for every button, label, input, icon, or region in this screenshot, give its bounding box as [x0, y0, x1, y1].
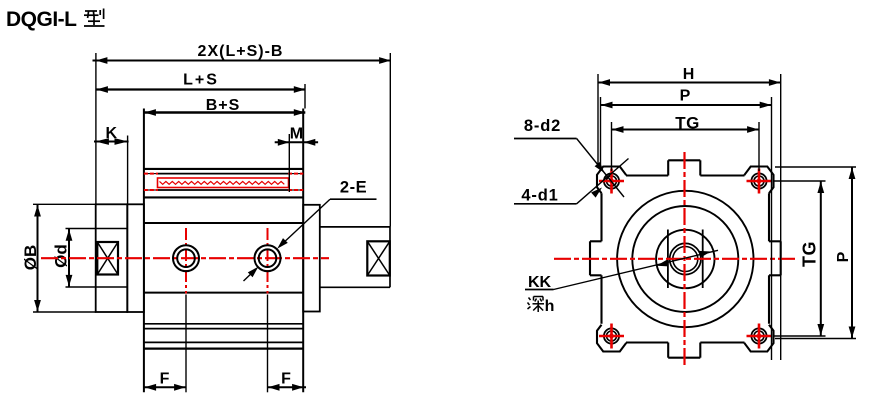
svg-text:M: M: [290, 126, 303, 143]
svg-text:KK: KK: [528, 274, 552, 291]
svg-text:F: F: [160, 371, 170, 388]
svg-text:L+S: L+S: [183, 72, 219, 89]
svg-text:2-E: 2-E: [340, 179, 367, 197]
svg-text:ØB: ØB: [21, 245, 40, 271]
svg-text:B+S: B+S: [206, 97, 241, 114]
svg-text:K: K: [106, 125, 118, 142]
svg-text:DQGI-L: DQGI-L: [6, 8, 77, 31]
svg-text:P: P: [680, 88, 691, 105]
svg-text:4-d1: 4-d1: [521, 187, 558, 205]
svg-text:Ød: Ød: [52, 244, 71, 268]
svg-text:8-d2: 8-d2: [524, 117, 561, 135]
svg-text:2X(L+S)-B: 2X(L+S)-B: [198, 43, 284, 60]
svg-text:h: h: [545, 298, 555, 315]
svg-text:F: F: [281, 371, 291, 388]
svg-text:TG: TG: [675, 114, 700, 133]
svg-text:P: P: [835, 251, 852, 262]
svg-text:H: H: [683, 66, 695, 83]
svg-text:TG: TG: [800, 241, 820, 267]
